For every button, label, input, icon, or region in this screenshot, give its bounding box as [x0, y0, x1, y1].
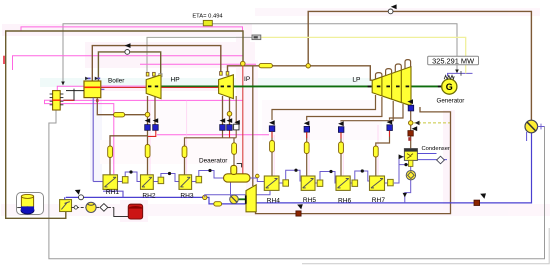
- wire condensate main blue: [66, 197, 246, 204]
- node dot link7: [404, 163, 407, 166]
- svg-text:IP: IP: [244, 76, 251, 83]
- economizer: [53, 91, 61, 110]
- sensor ETA box: [203, 20, 212, 25]
- wire blue into RH1: [93, 181, 103, 183]
- node tick on electric: [460, 71, 462, 76]
- wire HP downcomer left: [147, 96, 149, 175]
- pipe segment to RH3: [182, 146, 187, 158]
- wire deaerator downcomer: [230, 182, 232, 196]
- soft jpeg-like halos: [1, 8, 550, 222]
- node dot link4: [294, 169, 297, 172]
- wire power signal yellow: [261, 37, 466, 73]
- svg-text:RH5: RH5: [303, 197, 317, 204]
- wire dashed makeup line: [413, 122, 451, 124]
- wire IP downcomer right: [229, 96, 231, 125]
- node small pump RH4 link: [255, 174, 259, 178]
- boiler: [84, 81, 101, 98]
- wire gray from MW box to generator: [456, 65, 458, 71]
- wire RH4 to RH5 link: [279, 170, 301, 183]
- node flow arrow on hot reheat: [125, 43, 131, 48]
- condenser: [404, 149, 417, 161]
- node riser stub: [237, 164, 242, 168]
- wire pink bus upper: [13, 56, 244, 70]
- svg-text:RH3: RH3: [180, 193, 194, 200]
- wire pink top loop: [21, 27, 243, 31]
- wire LP extraction A: [272, 95, 376, 120]
- wire condenser pump outlet: [405, 166, 411, 203]
- node junction drain circle: [203, 195, 207, 199]
- wire RH2 to RH3 link: [153, 174, 179, 182]
- node dot link3: [208, 169, 211, 172]
- wire cold reheat HP to boiler: [98, 52, 160, 81]
- pipe segment to RH6: [339, 142, 344, 154]
- wire pink economizer line: [45, 100, 114, 174]
- wire IP left lower: [222, 130, 224, 137]
- node arrow LP column: [412, 126, 418, 131]
- node small circle on dash: [74, 206, 77, 209]
- wire HP branch to RH1: [110, 136, 148, 175]
- heater RH2: [141, 175, 156, 200]
- node white diamond cooling: [437, 156, 445, 164]
- node arrow on seal line: [297, 204, 303, 209]
- sensor red square LP column: [408, 131, 413, 136]
- wire IP downcomer left: [222, 96, 224, 125]
- svg-text:Boiler: Boiler: [108, 77, 125, 84]
- valve bypass on crossover: [241, 61, 246, 66]
- pipe segment to RH7: [373, 146, 378, 157]
- sensor blue squares: [145, 105, 414, 132]
- node dot link5: [329, 170, 332, 173]
- wire LP extraction D lower: [376, 130, 390, 175]
- wire crossover IP to LP: [228, 66, 373, 80]
- tank drain red: [128, 204, 142, 219]
- svg-text:Generator: Generator: [437, 98, 465, 105]
- svg-text:Condenser: Condenser: [422, 146, 450, 152]
- heater RH1: [103, 175, 119, 196]
- wire hot reheat boiler to IP: [92, 46, 221, 81]
- node IP inlet stubs: [220, 72, 223, 76]
- heater RH6: [336, 176, 352, 205]
- shaft generator line: [160, 85, 442, 87]
- wire RH4 drain to condensate: [205, 190, 270, 197]
- svg-text:RH2: RH2: [142, 193, 156, 200]
- sensor white square IP: [234, 124, 239, 130]
- turbine LP: [372, 67, 411, 106]
- svg-text:G: G: [446, 82, 453, 92]
- tank storage water: [21, 196, 33, 209]
- wire IP white sensor column: [235, 96, 237, 124]
- wire pump electric: [538, 126, 545, 128]
- node dot link2: [168, 172, 171, 175]
- pump deaerator: [230, 195, 239, 204]
- node arrow into condenser: [399, 154, 404, 159]
- pump circulating: [525, 120, 538, 133]
- wire top return loop to circulating pump: [308, 11, 531, 120]
- svg-text:RH6: RH6: [338, 198, 352, 205]
- wire condenser cooling lines: [418, 154, 447, 160]
- sensor red square on seal line: [296, 211, 301, 216]
- turbine BFP: [246, 185, 256, 212]
- deaerator tank: [224, 174, 251, 182]
- tank storage shell: [17, 193, 44, 215]
- node arrow into boiler control: [61, 82, 65, 86]
- wire LP stage loops: [376, 73, 382, 80]
- wire gray sensor line top: [63, 24, 457, 84]
- wire boiler level stub: [101, 88, 105, 90]
- wire pink boiler feed signal: [57, 86, 84, 92]
- wire heater header line: [185, 138, 237, 145]
- wire gray shadow bottom right: [302, 228, 549, 264]
- svg-text:ETA= 0.494: ETA= 0.494: [192, 14, 223, 20]
- wire generator electric: [448, 73, 473, 76]
- display MW box: [428, 56, 479, 65]
- node junction IP: [227, 112, 232, 117]
- wire to drain tank: [114, 207, 129, 216]
- wire LP extraction B: [307, 97, 382, 121]
- node arrow pump outlet: [403, 193, 407, 197]
- node red cross at drain: [96, 99, 99, 102]
- turbine HP: [146, 75, 161, 99]
- heater RH5: [301, 176, 316, 204]
- svg-text:RH1: RH1: [106, 189, 120, 196]
- wire RH1 to RH2 link: [118, 172, 141, 182]
- wire pink bus second: [140, 63, 256, 65]
- node burner inputs: [85, 77, 100, 79]
- node arrow top loop: [391, 4, 397, 9]
- svg-text:Deaerator: Deaerator: [199, 157, 228, 164]
- wire RH5 to RH6 link: [315, 172, 336, 184]
- node dot link1: [129, 170, 132, 173]
- sensor red square on condensate: [474, 200, 480, 205]
- wire RH3 to deaerator link: [191, 171, 223, 182]
- deaerator riser: [231, 165, 237, 174]
- node generator winding zigzag: [444, 75, 454, 79]
- node arrow on condensate: [480, 193, 486, 198]
- component FWH0 gland condenser: [60, 200, 72, 212]
- wire steam to deaerator red: [242, 66, 244, 174]
- wire gray tank loop: [49, 110, 545, 259]
- wire steam to BFP turbine: [252, 66, 254, 186]
- turbine IP: [219, 75, 234, 99]
- wire LP exhaust column: [410, 104, 412, 149]
- component yellow box on condensate line: [214, 202, 222, 206]
- wire dash condensate polishing: [72, 206, 114, 208]
- wire boiler drum blue: [92, 98, 94, 182]
- wire boiler drain to feed line: [97, 98, 145, 115]
- wire LP extraction D: [390, 104, 404, 120]
- node red tick below square: [408, 137, 411, 141]
- sensor display box: [252, 35, 261, 40]
- node white circle on cold reheat: [125, 50, 130, 55]
- wire main feed loop left: [6, 31, 243, 218]
- node junction crossover: [306, 64, 310, 68]
- valve diamond: [100, 204, 108, 212]
- node black tick on dashed line: [415, 121, 420, 126]
- pump condensate: [86, 202, 96, 212]
- wire main steam red: [101, 86, 219, 88]
- node arrow condensate left: [75, 190, 81, 195]
- wire pink drops to heaters: [150, 100, 378, 176]
- wire economizer to boiler black: [63, 91, 84, 101]
- valve arrows extraction: [145, 99, 413, 126]
- node white connector HP inlet: [159, 74, 162, 77]
- wire LP extraction C: [341, 101, 393, 122]
- wire HP downcomer right: [154, 96, 156, 125]
- pump condenser extraction: [406, 171, 415, 180]
- pipe segment deaerator: [232, 143, 237, 155]
- svg-text:325.291 MW: 325.291 MW: [432, 56, 474, 65]
- pipe segment to RH5: [304, 142, 309, 154]
- node junction HP feed: [145, 112, 150, 117]
- wire RH1 drain: [103, 189, 123, 197]
- node arrows IP white sensor: [234, 120, 239, 125]
- wire LP extraction C lower: [340, 132, 342, 176]
- node white circle condensate left: [79, 195, 84, 200]
- wire seal steam loop: [256, 107, 451, 214]
- generator G: [442, 79, 457, 94]
- wire red segments below LP squares: [272, 131, 390, 139]
- wire IP sensor lower: [235, 130, 237, 138]
- svg-text:RH7: RH7: [372, 197, 386, 204]
- svg-text:HP: HP: [171, 77, 181, 84]
- node junction condensate dash: [409, 121, 413, 125]
- wire IP right red segment: [229, 130, 231, 137]
- node BFP shaft link: [239, 198, 246, 200]
- pipe segment feed line: [114, 113, 125, 117]
- wire RH6 to RH7 link: [350, 171, 370, 183]
- pipe segment to RH2: [145, 145, 150, 158]
- wire deaerator to RH4 link: [250, 178, 264, 182]
- wire pump blue stub: [526, 132, 528, 141]
- wire pink lower bus: [157, 134, 269, 136]
- wire LP extraction A lower: [271, 132, 273, 177]
- wire RH7 to condenser link: [385, 157, 412, 183]
- node red stub left edge: [3, 56, 5, 64]
- wire HP right red segment: [148, 130, 156, 136]
- wire LP extraction B lower: [306, 132, 308, 176]
- heater connector squares: [122, 176, 393, 186]
- pipe segment crossover: [259, 64, 272, 68]
- heater RH4: [264, 176, 280, 204]
- heater RH3: [179, 175, 194, 200]
- node HP inlet stubs: [146, 72, 149, 76]
- pipe segment to RH1: [108, 146, 113, 158]
- heater RH7: [370, 176, 386, 204]
- svg-text:RH4: RH4: [267, 197, 281, 204]
- wire gray sensor HP: [147, 37, 252, 73]
- node shaft dashes: [148, 85, 441, 87]
- pipe segment to RH4: [270, 141, 275, 153]
- wire RH3 drop: [184, 144, 186, 175]
- svg-text:LP: LP: [352, 76, 361, 83]
- wire deaerator drop: [233, 138, 235, 166]
- node dot link6: [361, 169, 364, 172]
- node white circle top loop: [388, 9, 393, 14]
- node LP stage dividers: [382, 70, 401, 103]
